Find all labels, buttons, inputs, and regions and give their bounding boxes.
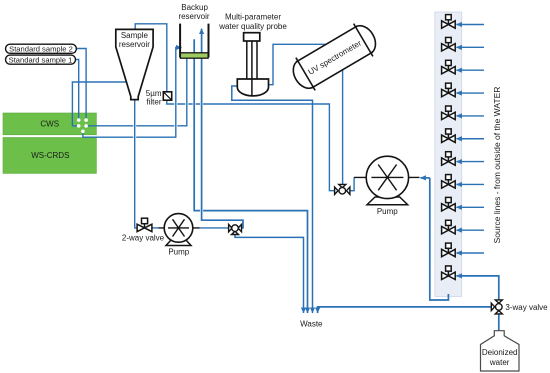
svg-text:Backup: Backup (181, 3, 208, 12)
svg-text:3-way valve: 3-way valve (505, 303, 548, 312)
svg-text:2-way valve: 2-way valve (122, 234, 165, 243)
svg-text:Waste: Waste (300, 319, 323, 328)
svg-text:filter: filter (146, 98, 161, 107)
svg-text:Sample: Sample (121, 31, 149, 40)
svg-text:Pump: Pump (168, 247, 189, 256)
svg-text:water: water (489, 358, 510, 367)
svg-text:Standard sample 1: Standard sample 1 (9, 55, 73, 64)
svg-text:Source lines - from outside of: Source lines - from outside of the WATER (492, 87, 502, 244)
svg-text:Deionized: Deionized (482, 348, 518, 357)
svg-text:CWS: CWS (40, 120, 59, 129)
svg-text:reservoir: reservoir (178, 12, 209, 21)
svg-text:Pump: Pump (377, 207, 398, 216)
svg-text:water quality probe: water quality probe (218, 22, 287, 31)
svg-text:reservoir: reservoir (119, 40, 150, 49)
svg-text:Standard sample 2: Standard sample 2 (9, 45, 73, 54)
svg-text:Multi-parameter: Multi-parameter (225, 12, 281, 21)
svg-text:WS-CRDS: WS-CRDS (31, 151, 69, 160)
